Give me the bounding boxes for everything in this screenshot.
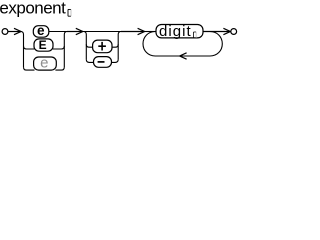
- arrowhead into group1: [14, 28, 21, 34]
- wire: group2 to digit loop: [121, 31, 145, 33]
- wire: - box to right vertical: [112, 59, 119, 62]
- nonterminal box e (row3, gray): [34, 57, 57, 70]
- svg-text:e: e: [37, 23, 45, 38]
- wire: gray e box to right vertical: [55, 67, 64, 70]
- repeat loop around digit: [143, 32, 222, 57]
- group2 right vertical and rejoin arc: [118, 32, 121, 60]
- group1 left branch: corner arc down: [21, 32, 24, 68]
- svg-text:e: e: [40, 54, 48, 71]
- title missing-glyph box (tofu subscript): [68, 9, 71, 16]
- terminal text +: [98, 42, 106, 51]
- loop back-arrowhead (points left): [180, 53, 187, 59]
- wire: + box to right vertical: [112, 44, 118, 47]
- group2 left branch corner arc down: [83, 32, 86, 60]
- svg-text:E: E: [39, 38, 47, 52]
- group2 stub to + row: [86, 44, 93, 47]
- svg-text:exponent: exponent: [0, 0, 66, 17]
- group2 stub to - row: [86, 59, 93, 62]
- group1 right vertical and rejoin arc: [64, 32, 67, 68]
- wire: arrow to digit box: [145, 31, 156, 33]
- svg-text:digit: digit: [159, 23, 192, 40]
- group1 left stub to row2 (E): [24, 46, 35, 49]
- terminal text -: [98, 61, 105, 63]
- group1 left stub to row3 (gray e): [24, 67, 35, 70]
- wire: start to group1: [8, 31, 21, 33]
- terminal box +: [93, 40, 112, 53]
- start circle: [2, 29, 8, 35]
- wire: group1 to group2: [67, 31, 83, 33]
- arrowhead into group2: [76, 28, 83, 34]
- terminal box E (row2): [34, 39, 53, 51]
- wire: E box to right vertical: [53, 46, 64, 49]
- terminal box -: [94, 57, 112, 68]
- end circle: [231, 29, 237, 35]
- arrowhead at end: [223, 28, 230, 34]
- digit missing-glyph box (tofu subscript): [194, 32, 197, 38]
- arrowhead into digit loop: [138, 28, 145, 34]
- terminal box digit: [156, 25, 203, 38]
- terminal box e (row1, on main line): [33, 26, 49, 38]
- wire: row1 box to group1 exit: [49, 31, 68, 33]
- wire: digit box to end: [203, 31, 230, 33]
- group2 skip wire (straight through): [83, 31, 121, 33]
